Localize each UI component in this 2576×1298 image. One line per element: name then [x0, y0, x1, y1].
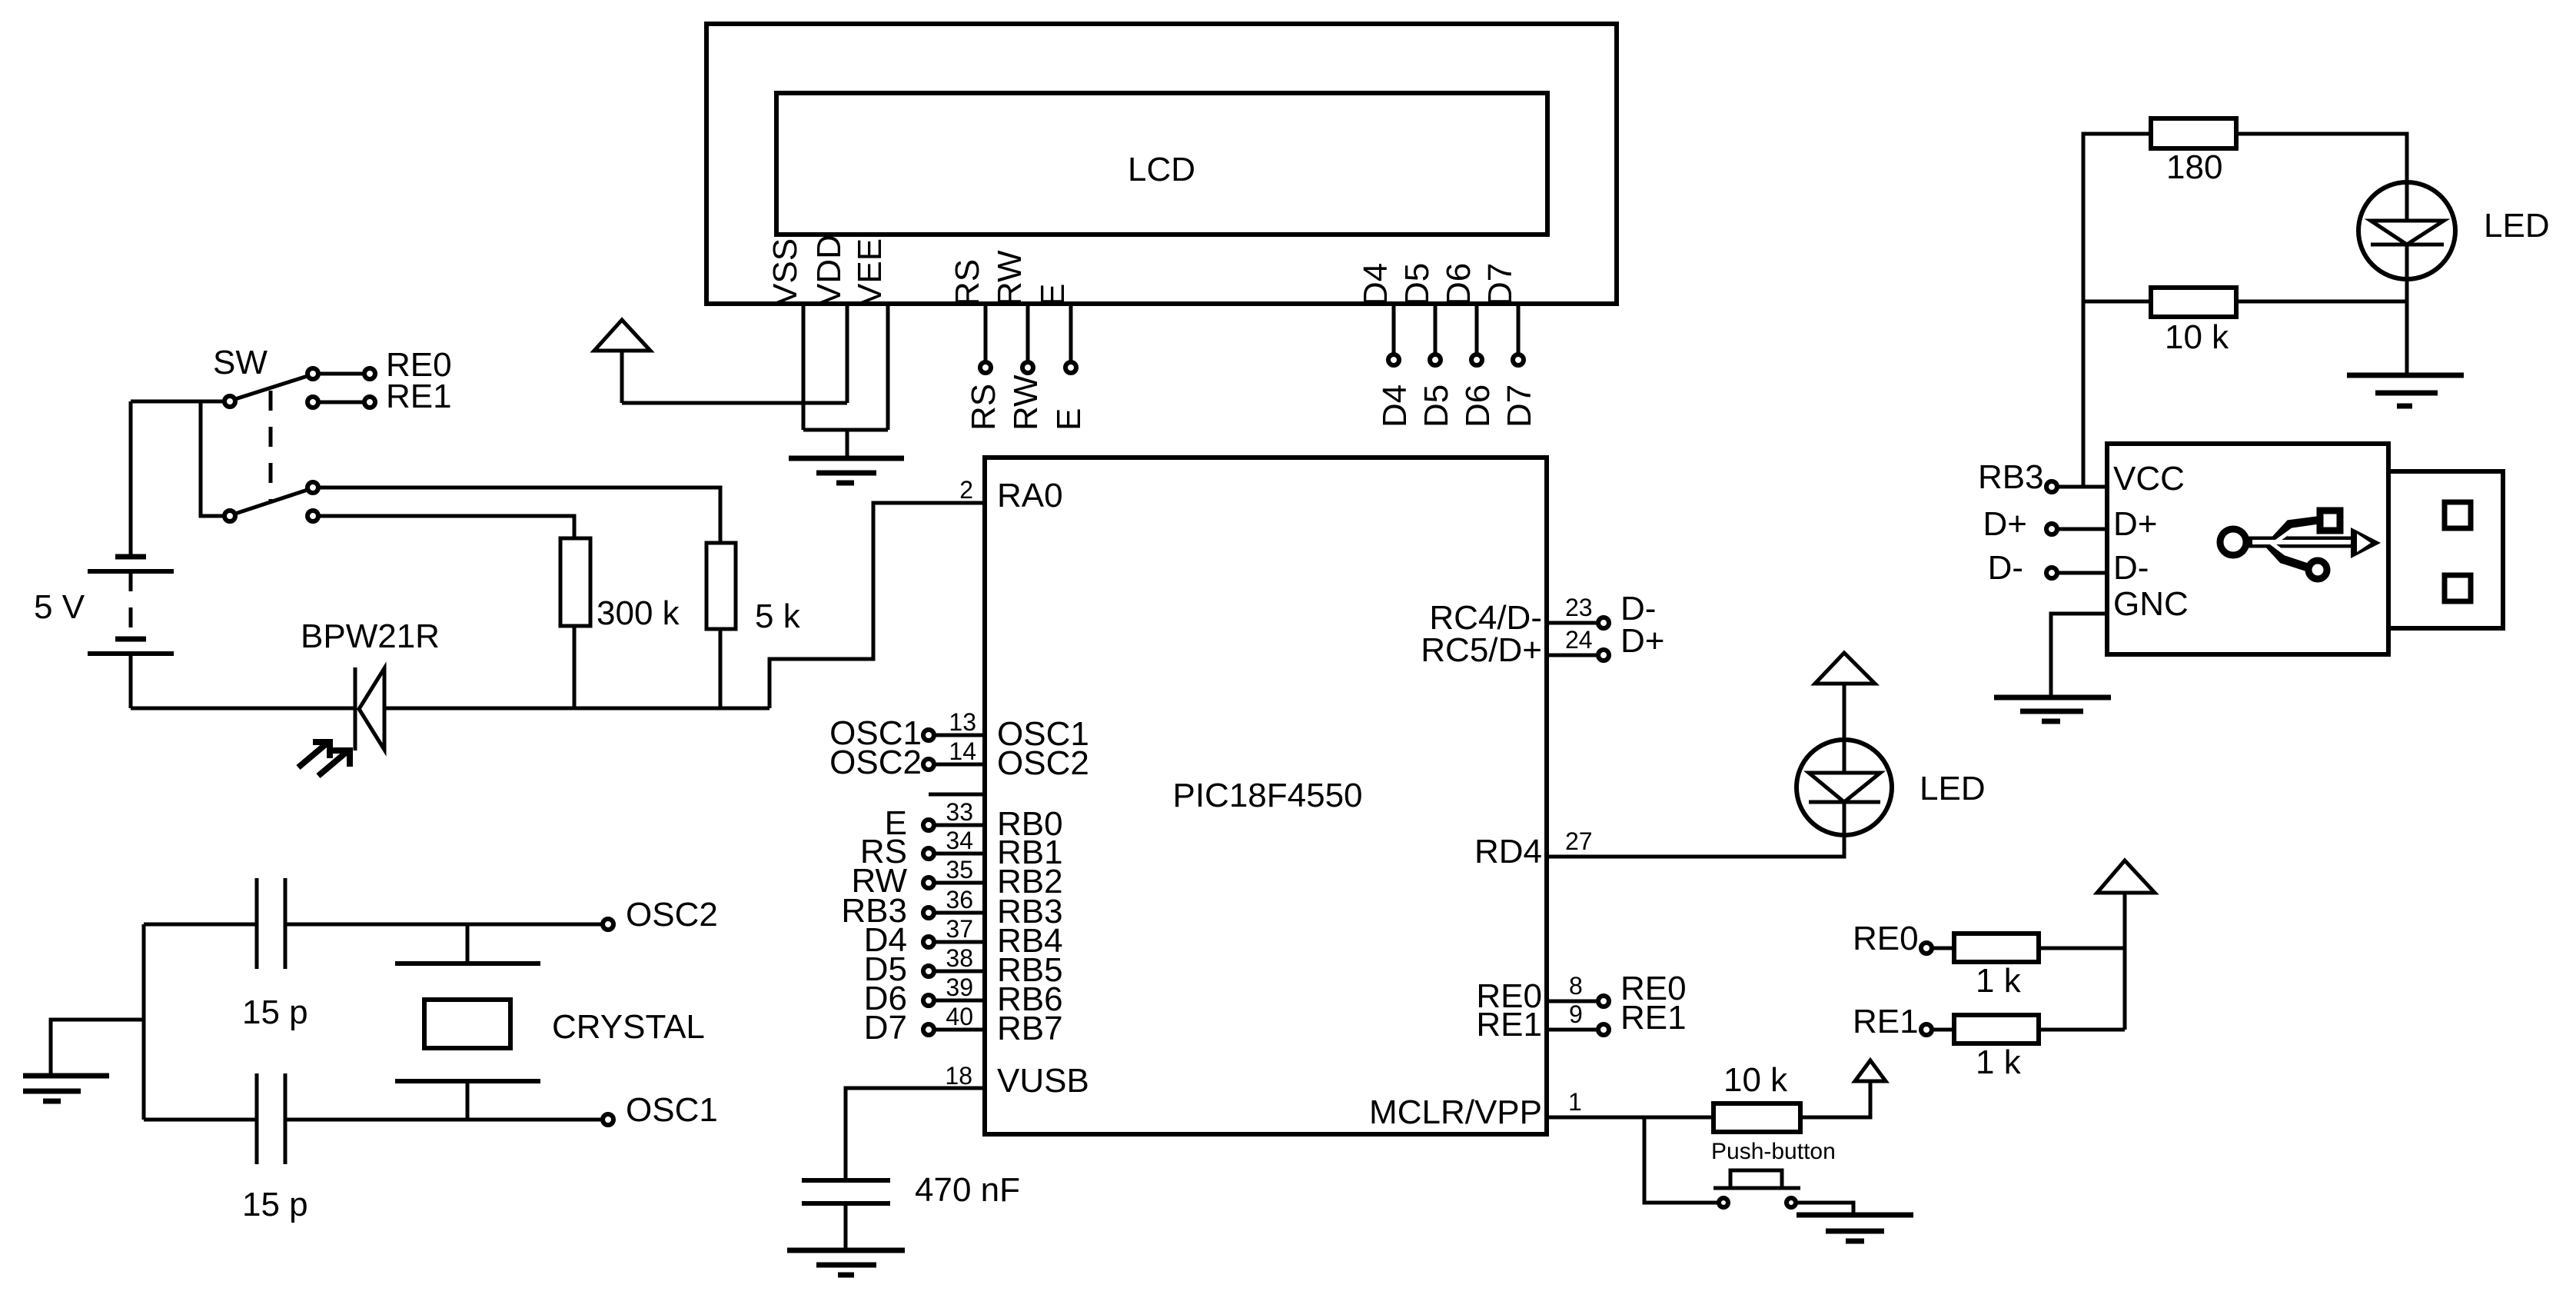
svg-text:33: 33 — [946, 798, 973, 826]
svg-text:15 p: 15 p — [242, 1186, 308, 1223]
ground LED D1 — [2347, 373, 2464, 378]
svg-text:27: 27 — [1565, 827, 1593, 855]
wire RE1 to R6 — [1932, 1028, 1954, 1032]
wire RB3 rail top — [2083, 134, 2151, 487]
wire VEE stem — [886, 304, 890, 430]
LED D1 — [2358, 182, 2455, 279]
wire VSS stem — [802, 304, 806, 430]
resistor R2 10k — [2151, 288, 2236, 317]
svg-text:D5: D5 — [1418, 384, 1455, 428]
USB trident logo — [2220, 529, 2246, 555]
wire D5 stem — [1434, 304, 1438, 354]
ground LCD — [789, 456, 904, 461]
svg-text:VUSB: VUSB — [997, 1062, 1089, 1100]
power arrow RE rail — [2097, 860, 2155, 893]
svg-text:1: 1 — [1568, 1088, 1582, 1116]
svg-text:LED: LED — [1920, 770, 1986, 807]
svg-text:RS: RS — [949, 259, 986, 306]
svg-text:GNC: GNC — [2113, 585, 2189, 623]
svg-text:RE1: RE1 — [386, 378, 452, 415]
wire OSC1 left — [144, 1118, 257, 1122]
svg-text:D4: D4 — [1357, 263, 1394, 306]
wire VDD stem — [846, 304, 849, 403]
photodiode BPW21R — [354, 667, 357, 751]
svg-text:BPW21R: BPW21R — [301, 617, 440, 655]
svg-text:23: 23 — [1565, 594, 1593, 621]
pin 14 OSC2 — [934, 763, 985, 767]
svg-text:D6: D6 — [1459, 384, 1497, 428]
svg-text:14: 14 — [949, 737, 976, 765]
node D7 terminal — [1513, 354, 1524, 365]
wire RB3 to VCC — [2057, 485, 2107, 489]
svg-text:LED: LED — [2484, 207, 2550, 245]
wire OSC2 right — [285, 923, 602, 927]
wire ground leg — [846, 430, 849, 458]
wire OSC2 left — [144, 923, 257, 927]
wire R5 to power rail — [2039, 947, 2125, 950]
LCD module outer box — [706, 24, 1617, 304]
svg-text:OSC2: OSC2 — [829, 744, 922, 781]
capacitor C1 15p — [255, 878, 259, 969]
svg-text:VDD: VDD — [810, 235, 848, 306]
svg-text:D7: D7 — [1481, 263, 1519, 306]
wire VDD supply — [622, 401, 847, 405]
push-button S1 — [1713, 1187, 1800, 1190]
node RB3 terminal — [2046, 481, 2057, 492]
node RE1 contact — [307, 397, 318, 408]
wire D+ — [2057, 528, 2107, 531]
svg-text:10 k: 10 k — [1723, 1061, 1788, 1099]
wire MCLR pin 1 — [1547, 1116, 1713, 1120]
pin 36 RB3 — [934, 911, 985, 915]
USB connector J1 box — [2107, 444, 2388, 654]
resistor R1 180 — [2151, 118, 2236, 148]
pin 34 RB1 — [934, 852, 985, 856]
wire RS stem — [984, 304, 988, 361]
switch SW link dashed — [269, 391, 273, 501]
svg-text:E: E — [1034, 284, 1072, 306]
resistor R5 1k — [1954, 934, 2039, 962]
wire RA0 net step — [769, 503, 985, 708]
power arrow VDD supply — [594, 320, 650, 351]
wire D7 stem — [1517, 304, 1521, 354]
wire battery to photodiode — [131, 707, 354, 711]
svg-text:MCLR/VPP: MCLR/VPP — [1369, 1093, 1542, 1131]
ground crystal — [23, 1073, 109, 1079]
svg-text:300 k: 300 k — [597, 594, 680, 632]
svg-text:RW: RW — [1007, 374, 1045, 431]
svg-text:1 k: 1 k — [1976, 1043, 2022, 1081]
ground push-button — [1797, 1213, 1913, 1218]
USB plug contact 1 — [2445, 502, 2471, 528]
pin 13 OSC1 — [934, 734, 985, 737]
node E terminal — [1065, 362, 1076, 373]
battery 5V — [129, 401, 133, 557]
svg-text:D7: D7 — [1501, 384, 1538, 428]
wire R6 to power rail — [2039, 1028, 2125, 1032]
wire RE0 to R5 — [1932, 947, 1954, 950]
USB plug outline — [2388, 471, 2503, 628]
node RE0 terminal — [1921, 943, 1932, 954]
power arrow small — [1855, 1060, 1886, 1081]
pin 38 RB5 — [934, 970, 985, 973]
svg-text:RE1: RE1 — [1620, 999, 1687, 1037]
svg-text:1 k: 1 k — [1976, 962, 2022, 1000]
svg-text:RE1: RE1 — [1853, 1003, 1919, 1040]
svg-text:18: 18 — [945, 1062, 972, 1090]
svg-text:2: 2 — [959, 476, 973, 504]
svg-text:D7: D7 — [864, 1009, 907, 1047]
svg-text:RW: RW — [991, 250, 1029, 306]
wire power rail — [2123, 893, 2127, 1030]
resistor R4 10k — [1713, 1103, 1800, 1132]
node RE1 terminal — [1921, 1024, 1932, 1035]
wire 10k row — [2083, 300, 2151, 304]
svg-text:VSS: VSS — [766, 238, 804, 306]
LCD display inner box — [776, 93, 1547, 235]
wire D4 stem — [1392, 304, 1396, 354]
svg-text:OSC1: OSC1 — [626, 1091, 718, 1129]
wire 180 to LED — [2236, 134, 2407, 182]
wire push-button to ground — [1797, 1203, 1853, 1215]
resistor 300k — [560, 538, 590, 626]
pin stub unlabeled — [929, 793, 985, 797]
svg-text:RA0: RA0 — [997, 477, 1063, 514]
wire E stem — [1069, 304, 1073, 361]
svg-text:37: 37 — [946, 915, 973, 943]
node OSC1 terminal — [603, 1114, 613, 1125]
svg-text:D+: D+ — [1620, 622, 1664, 660]
svg-text:RS: RS — [965, 384, 1002, 431]
wire LED to power — [1843, 684, 1846, 740]
svg-text:36: 36 — [946, 886, 973, 914]
svg-text:9: 9 — [1569, 1000, 1583, 1028]
svg-text:CRYSTAL: CRYSTAL — [552, 1008, 705, 1046]
switch SW blade B — [235, 490, 307, 514]
svg-text:D4: D4 — [1376, 384, 1414, 428]
svg-text:D5: D5 — [1398, 263, 1436, 306]
wire contact B1 to 5k — [318, 488, 720, 543]
capacitor C2 15p — [255, 1073, 259, 1164]
wire crystal left rail — [142, 924, 146, 1120]
wire 10k to LED cathode — [2236, 300, 2407, 304]
wire GNC to ground — [2051, 614, 2107, 697]
pin 35 RB2 — [934, 881, 985, 885]
wire LED to ground — [2405, 279, 2409, 375]
node switch contact B2 — [307, 511, 318, 521]
wire 10k to power — [1800, 1081, 1870, 1117]
pin 24 RC5/D+ — [1547, 654, 1597, 657]
pin 40 RB7 — [934, 1028, 985, 1032]
svg-text:SW: SW — [213, 344, 268, 381]
svg-text:D6: D6 — [1440, 263, 1477, 306]
pin 23 RC4/D- — [1547, 621, 1597, 625]
svg-text:35: 35 — [946, 856, 973, 884]
wire MCLR to push-button — [1644, 1117, 1718, 1203]
svg-text:D-: D- — [1988, 549, 2023, 587]
pin 8 RE0 — [1547, 1000, 1597, 1003]
svg-text:5 k: 5 k — [755, 597, 801, 635]
PIC18F4550 U1 box — [985, 458, 1547, 1134]
node D6 terminal — [1471, 354, 1482, 365]
node D4 terminal — [1388, 354, 1399, 365]
svg-text:13: 13 — [949, 708, 976, 736]
switch SW blade A — [235, 376, 307, 399]
svg-text:VEE: VEE — [851, 238, 889, 306]
node switch contact B1 — [307, 482, 318, 493]
light arrows — [298, 743, 327, 767]
node RS terminal — [980, 362, 991, 373]
svg-text:Push-button: Push-button — [1711, 1139, 1836, 1164]
node OSC2 terminal — [603, 919, 613, 930]
svg-text:15 p: 15 p — [242, 993, 308, 1031]
svg-text:D+: D+ — [2113, 505, 2157, 543]
power arrow LED D2 — [1815, 653, 1875, 684]
svg-text:470 nF: 470 nF — [915, 1171, 1020, 1209]
node RE0 contact — [307, 368, 318, 379]
ground USB — [1994, 695, 2111, 701]
svg-text:RB3: RB3 — [1978, 458, 2044, 496]
pin 39 RB6 — [934, 999, 985, 1003]
svg-text:LCD: LCD — [1128, 151, 1195, 188]
capacitor C3 470nF — [802, 1178, 890, 1183]
pin 9 RE1 — [1547, 1028, 1597, 1032]
wire contact B2 to 300k — [318, 516, 574, 538]
wire RD4 pin 27 — [1547, 835, 1844, 857]
svg-text:OSC2: OSC2 — [626, 896, 718, 934]
switch SW pole B — [224, 511, 235, 521]
LED D2 — [1797, 740, 1892, 835]
pin 37 RB4 — [934, 940, 985, 944]
svg-text:RE1: RE1 — [1476, 1006, 1542, 1043]
wire VSS-VEE bottom — [803, 428, 888, 432]
node RW terminal — [1022, 362, 1033, 373]
svg-text:180: 180 — [2166, 148, 2222, 186]
svg-text:E: E — [1050, 408, 1088, 431]
svg-text:RD4: RD4 — [1474, 833, 1542, 870]
svg-text:OSC2: OSC2 — [997, 744, 1089, 782]
node D- terminal — [2046, 567, 2057, 578]
svg-text:10 k: 10 k — [2165, 318, 2229, 356]
node D5 terminal — [1430, 354, 1441, 365]
wire VUSB pin 18 — [846, 1088, 985, 1180]
USB plug contact 2 — [2445, 575, 2471, 601]
svg-text:34: 34 — [946, 827, 973, 854]
svg-text:40: 40 — [946, 1003, 973, 1030]
wire RW stem — [1026, 304, 1030, 361]
wire ground branch — [51, 1020, 144, 1076]
svg-text:PIC18F4550: PIC18F4550 — [1172, 777, 1362, 814]
wire D6 stem — [1475, 304, 1479, 354]
wire battery to switch poles — [131, 400, 224, 404]
node D+ terminal — [2046, 524, 2057, 534]
svg-text:38: 38 — [946, 944, 973, 972]
svg-text:24: 24 — [1565, 626, 1593, 654]
svg-text:8: 8 — [1569, 972, 1583, 1000]
svg-text:D+: D+ — [1983, 505, 2027, 543]
resistor 5k — [706, 543, 736, 629]
svg-text:RE0: RE0 — [1853, 920, 1919, 957]
wire photodiode to RA0 net — [384, 707, 769, 711]
switch SW pole A — [224, 396, 235, 407]
svg-text:RB7: RB7 — [997, 1010, 1063, 1047]
svg-text:D-: D- — [2113, 549, 2149, 587]
resistor R6 1k — [1954, 1015, 2039, 1043]
svg-text:VCC: VCC — [2113, 460, 2185, 498]
wire D- — [2057, 571, 2107, 575]
pin 33 RB0 — [934, 824, 985, 827]
svg-text:39: 39 — [946, 973, 973, 1001]
wire cap to ground — [844, 1203, 848, 1250]
crystal X1 — [466, 924, 470, 964]
wire OSC1 right — [285, 1118, 602, 1122]
svg-text:RC5/D+: RC5/D+ — [1421, 631, 1542, 669]
ground C3 — [787, 1248, 905, 1253]
svg-text:5 V: 5 V — [34, 588, 85, 626]
